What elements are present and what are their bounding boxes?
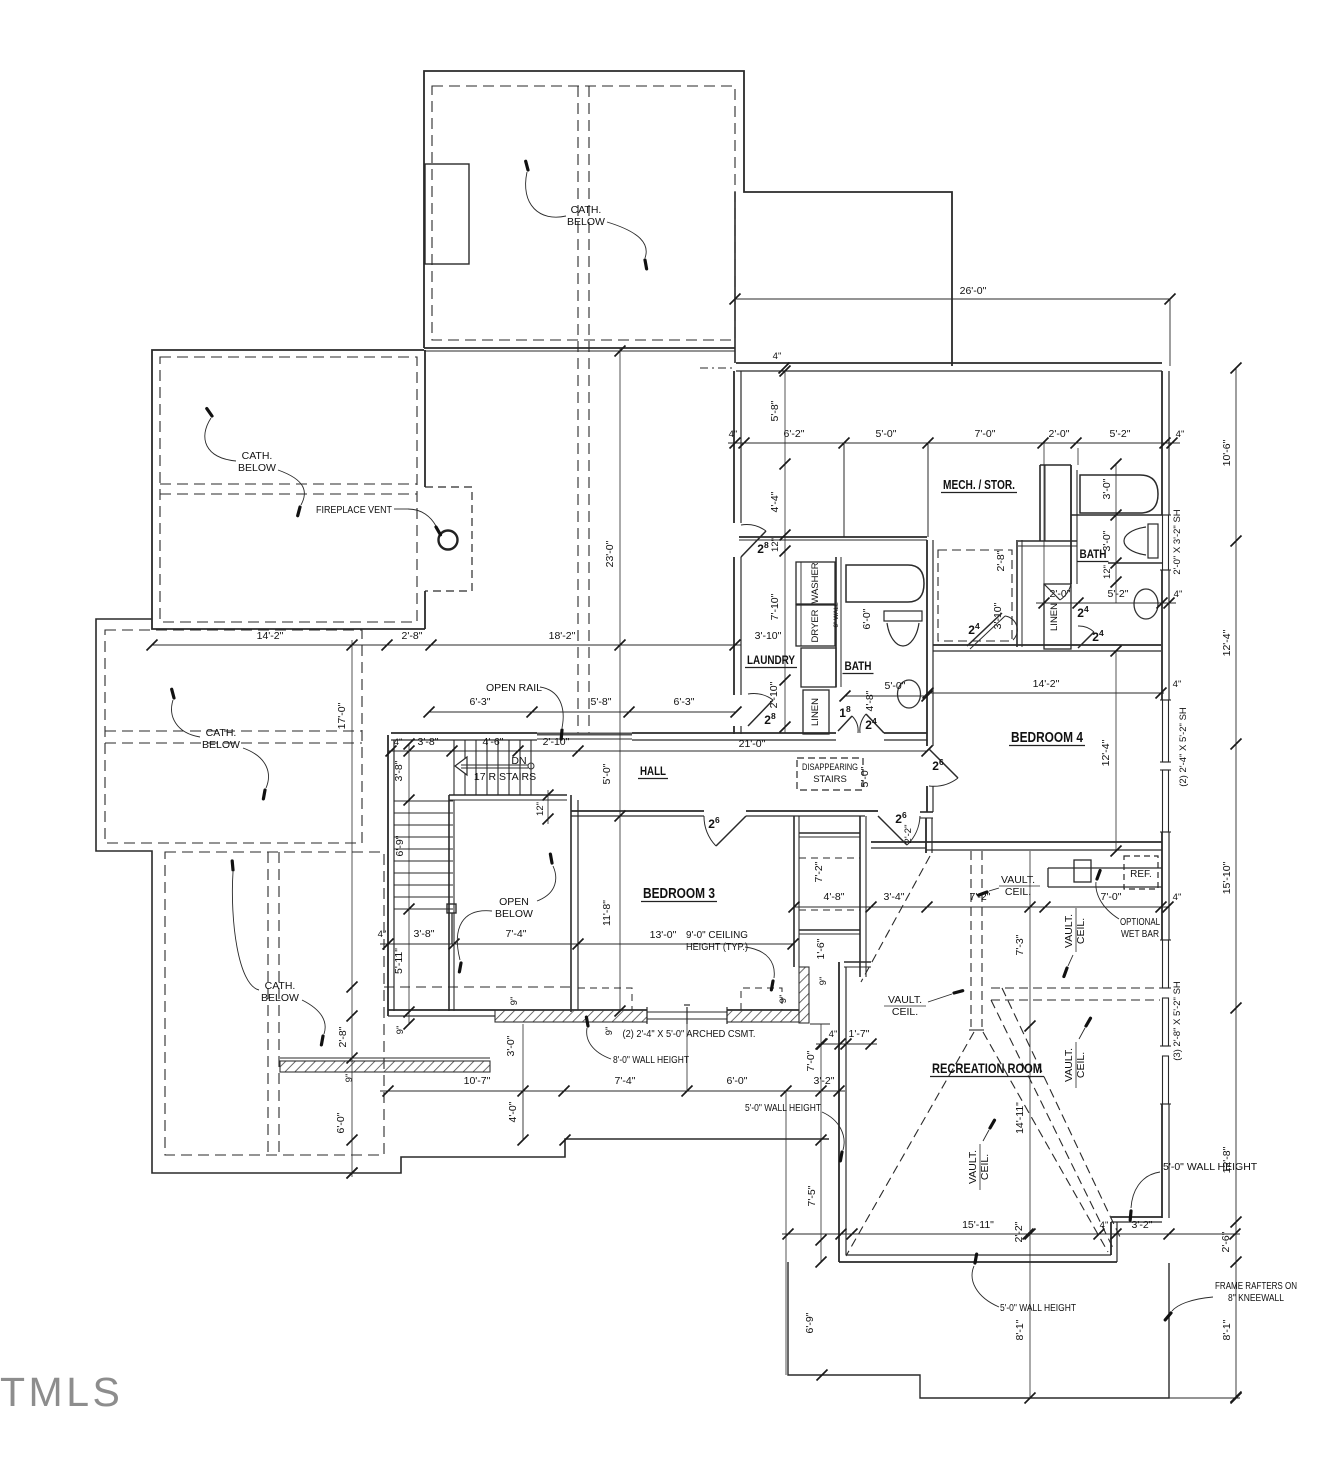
svg-text:2'-2": 2'-2" <box>1013 1221 1025 1242</box>
newel post <box>447 904 456 913</box>
wall: mech-stor south wall <box>739 536 927 538</box>
svg-text:6'-3": 6'-3" <box>470 696 491 708</box>
svg-text:9'-0" CEILING: 9'-0" CEILING <box>686 929 748 941</box>
svg-text:4'-4": 4'-4" <box>769 491 781 512</box>
svg-text:(2) 2'-4" X 5'-2" SH: (2) 2'-4" X 5'-2" SH <box>1178 707 1189 787</box>
svg-text:7'-10": 7'-10" <box>769 593 781 620</box>
dash: rec vault valley pair <box>991 1000 1113 1248</box>
svg-text:7'-4": 7'-4" <box>615 1075 636 1087</box>
svg-text:CEIL.: CEIL. <box>1005 886 1031 898</box>
svg-text:HEIGHT (TYP.): HEIGHT (TYP.) <box>686 941 748 953</box>
window: arched csmt pair bedroom3 <box>647 1011 727 1013</box>
svg-text:6'-9": 6'-9" <box>804 1312 816 1333</box>
svg-text:DN: DN <box>511 755 526 767</box>
dash: lower-left ceiling pair <box>105 730 362 732</box>
door 1-8 linen laundry <box>838 716 852 731</box>
svg-text:DISAPPEARING: DISAPPEARING <box>802 762 858 773</box>
dim line stairs top / 21-0 <box>388 750 927 752</box>
wall: left room right side <box>424 350 426 487</box>
dash: stair vault hip <box>861 856 930 982</box>
svg-text:5'-0": 5'-0" <box>885 680 906 692</box>
door 2-8 mech entry <box>741 531 766 557</box>
svg-text:OPEN RAIL: OPEN RAIL <box>486 682 542 694</box>
svg-text:2'-8": 2'-8" <box>337 1026 349 1047</box>
dash: rec vault ridge pair vertical <box>970 851 972 1027</box>
svg-text:4'-8": 4'-8" <box>824 891 845 903</box>
svg-text:5'-2": 5'-2" <box>1110 428 1131 440</box>
disappearing stairs box <box>797 758 863 790</box>
svg-text:CEIL.: CEIL. <box>979 1154 991 1180</box>
svg-text:9": 9" <box>509 997 520 1006</box>
sink center bath <box>898 680 921 708</box>
svg-text:3'-8": 3'-8" <box>414 928 435 940</box>
right margin dim column <box>1235 368 1237 1397</box>
svg-text:BATH: BATH <box>845 659 872 673</box>
svg-text:MECH. / STOR.: MECH. / STOR. <box>943 478 1015 492</box>
wall: main block left with door openings <box>733 371 735 523</box>
svg-text:8" KNEEWALL: 8" KNEEWALL <box>1228 1292 1284 1304</box>
dash: lower-left upper inner <box>105 630 362 843</box>
wall: right bath / sink area divider <box>1108 562 1162 564</box>
dim line bedroom3 width 3-8 7-4 13-0 <box>380 943 793 945</box>
svg-text:3'-2": 3'-2" <box>814 1075 835 1087</box>
door 2-6 bedroom4 entry <box>929 749 958 778</box>
wall: upper cath room bottom <box>424 347 735 349</box>
toilet center bath <box>884 611 922 621</box>
svg-text:14'-11": 14'-11" <box>1014 1102 1026 1134</box>
dash: lower-left lower inner <box>165 852 384 1155</box>
wall: laundry-bath 6in wall <box>835 557 837 687</box>
wall: rec room south <box>839 1261 1117 1263</box>
tick on kneewall boundary <box>560 1135 571 1146</box>
svg-text:OPTIONAL: OPTIONAL <box>1120 916 1160 928</box>
svg-text:6'-2": 6'-2" <box>784 428 805 440</box>
svg-text:TMLS: TMLS <box>0 1369 123 1415</box>
dash-dot stub left of main top wall <box>700 367 733 369</box>
hatch: lower-left kneewall band <box>280 1061 490 1072</box>
door vestibule 2-2 <box>878 816 907 845</box>
fireplace vent circle <box>439 531 458 550</box>
svg-text:4'-8": 4'-8" <box>864 690 876 711</box>
svg-text:14'-2": 14'-2" <box>1033 678 1060 690</box>
wall: upper cath room outline <box>424 71 952 366</box>
svg-text:BELOW: BELOW <box>238 462 276 474</box>
svg-text:9": 9" <box>778 995 789 1004</box>
svg-text:23'-0": 23'-0" <box>604 540 616 567</box>
svg-text:1'-7": 1'-7" <box>849 1028 870 1040</box>
dim line rec 4in 1-7 <box>816 1043 877 1045</box>
svg-text:8'-1": 8'-1" <box>1014 1319 1026 1340</box>
svg-text:LAUNDRY: LAUNDRY <box>747 653 795 667</box>
dim ext lines mech <box>1043 443 1045 598</box>
wall: open-below / bedroom3 divider <box>570 795 572 1012</box>
tub center bath <box>846 565 924 602</box>
linen cabinet laundry <box>803 690 829 734</box>
hatch: bedroom3 south wall right part <box>727 1010 799 1022</box>
svg-text:8'-1": 8'-1" <box>1221 1319 1233 1340</box>
wall: hall north continued <box>632 732 836 734</box>
laundry counter box <box>801 648 836 687</box>
hatch: east wall of bedroom3 wing <box>799 967 809 1023</box>
wet bar sink <box>1074 860 1091 882</box>
door 2-6 bedroom3 entry <box>716 816 746 846</box>
svg-text:5'-0" WALL HEIGHT: 5'-0" WALL HEIGHT <box>1000 1302 1076 1314</box>
svg-text:BELOW: BELOW <box>202 739 240 751</box>
svg-text:5'-8": 5'-8" <box>591 696 612 708</box>
dim column x523 <box>522 1024 524 1091</box>
svg-text:6'-0": 6'-0" <box>335 1112 347 1133</box>
svg-text:2'-0": 2'-0" <box>1049 428 1070 440</box>
svg-text:4": 4" <box>1173 892 1182 903</box>
svg-text:3'-0": 3'-0" <box>1101 478 1113 499</box>
dash: bedroom4 closet <box>938 550 1012 641</box>
wall: bedroom4 north <box>933 644 1161 646</box>
stairs DN arrow <box>455 757 467 775</box>
svg-text:3'-4": 3'-4" <box>884 891 905 903</box>
svg-text:4": 4" <box>773 351 782 362</box>
wall: bedroom4 closet east <box>1016 540 1018 647</box>
svg-text:WASHER: WASHER <box>810 562 821 603</box>
left interior dim column x785 <box>784 371 786 733</box>
svg-text:CATH.: CATH. <box>265 980 296 992</box>
svg-text:(2) 2'-4" X 5'-0" ARCHED CSMT.: (2) 2'-4" X 5'-0" ARCHED CSMT. <box>623 1028 756 1040</box>
svg-text:CATH.: CATH. <box>242 450 273 462</box>
wall: left cath room outline <box>152 350 425 629</box>
svg-text:13'-0": 13'-0" <box>650 929 677 941</box>
svg-text:7'-0": 7'-0" <box>975 428 996 440</box>
svg-text:4": 4" <box>829 1029 838 1040</box>
dryer box <box>796 605 835 646</box>
dim column x352 17-0 <box>351 640 353 1177</box>
svg-text:2'-0": 2'-0" <box>1050 588 1071 600</box>
svg-text:2'-8": 2'-8" <box>995 550 1007 571</box>
door linen right bath <box>1044 584 1060 600</box>
wall: bedroom3 closet column <box>793 816 795 967</box>
svg-text:4": 4" <box>394 737 403 748</box>
svg-text:FIREPLACE VENT: FIREPLACE VENT <box>316 504 392 516</box>
dim column right bath x1116 <box>1115 464 1117 603</box>
stairs lower run treads <box>394 800 453 802</box>
svg-text:12": 12" <box>535 802 546 816</box>
svg-text:FRAME RAFTERS ON: FRAME RAFTERS ON <box>1215 1280 1297 1292</box>
dim column x687 window <box>686 1024 688 1091</box>
svg-text:BELOW: BELOW <box>495 908 533 920</box>
dim column x620 23-0 <box>619 348 621 1012</box>
svg-text:4'-6": 4'-6" <box>483 736 504 748</box>
svg-text:BEDROOM 3: BEDROOM 3 <box>643 886 715 902</box>
window: rec room triple 2-8x5-2 SH <box>1163 940 1169 988</box>
svg-text:6'-0": 6'-0" <box>861 608 873 629</box>
svg-text:2'-2": 2'-2" <box>903 825 914 844</box>
svg-text:5'-0" WALL HEIGHT: 5'-0" WALL HEIGHT <box>1163 1161 1258 1173</box>
svg-text:CEIL.: CEIL. <box>1075 918 1087 944</box>
dash: rec horizontal ceiling pair <box>991 987 1160 989</box>
svg-text:STAIRS: STAIRS <box>813 774 847 785</box>
svg-text:OPEN: OPEN <box>499 896 529 908</box>
svg-text:BELOW: BELOW <box>567 216 605 228</box>
svg-text:9": 9" <box>344 1074 355 1083</box>
svg-text:10'-6": 10'-6" <box>1221 439 1233 466</box>
svg-text:12'-4": 12'-4" <box>1100 739 1112 766</box>
washer box <box>796 562 835 604</box>
svg-text:7'-3": 7'-3" <box>1014 934 1026 955</box>
svg-text:(3) 2'-8" X 5'-2" SH: (3) 2'-8" X 5'-2" SH <box>1172 981 1183 1061</box>
wall: linen closet right-bath <box>1044 584 1071 649</box>
svg-text:9": 9" <box>604 1027 615 1036</box>
svg-text:4'-0": 4'-0" <box>507 1101 519 1122</box>
svg-text:CATH.: CATH. <box>206 727 237 739</box>
svg-text:4": 4" <box>1174 589 1183 600</box>
svg-text:DRYER: DRYER <box>810 609 821 642</box>
svg-text:7'-0": 7'-0" <box>805 1050 817 1071</box>
dash: fireplace chase <box>425 487 472 591</box>
wall: bedroom wing south wall <box>388 1009 647 1011</box>
svg-text:6" WALL: 6" WALL <box>833 602 840 628</box>
dim line mech top row <box>728 442 1180 444</box>
svg-text:VAULT.: VAULT. <box>967 1150 979 1184</box>
refrigerator dashed box <box>1124 856 1158 889</box>
svg-text:6'-0": 6'-0" <box>727 1075 748 1087</box>
svg-text:2'-6": 2'-6" <box>1220 1231 1232 1252</box>
svg-text:REF.: REF. <box>1130 869 1152 880</box>
dim column x821 rec west <box>820 1024 822 1262</box>
svg-text:3'-2": 3'-2" <box>1132 1219 1153 1231</box>
dash: kneewall line through stairs area <box>384 986 570 988</box>
svg-text:10'-7": 10'-7" <box>464 1075 491 1087</box>
wall: bedroom4 south <box>926 841 1162 843</box>
svg-text:12": 12" <box>770 538 781 552</box>
svg-text:7'-5": 7'-5" <box>806 1185 818 1206</box>
toilet right bath <box>1148 524 1158 558</box>
svg-text:9": 9" <box>395 1026 406 1035</box>
svg-text:26'-0": 26'-0" <box>960 285 987 297</box>
svg-text:CATH.: CATH. <box>571 204 602 216</box>
wall: right bath west wall <box>1070 465 1072 584</box>
dim line 26-0 top <box>735 298 1170 300</box>
svg-text:2'-0" X 3'-2" SH: 2'-0" X 3'-2" SH <box>1172 509 1183 574</box>
svg-text:4": 4" <box>378 929 387 940</box>
wall: bath north nib and linen top <box>1039 465 1041 541</box>
svg-text:WET BAR: WET BAR <box>1121 928 1159 940</box>
hatch: bedroom3 south wall left part <box>495 1010 647 1022</box>
svg-text:4": 4" <box>729 429 738 440</box>
svg-text:BATH: BATH <box>1080 547 1107 561</box>
svg-text:5'-0" WALL HEIGHT: 5'-0" WALL HEIGHT <box>745 1102 821 1114</box>
wall: rec room west <box>838 962 840 1262</box>
wall: lower roof outline <box>788 1262 1169 1398</box>
svg-text:VAULT.: VAULT. <box>1063 914 1075 948</box>
dim line open rail 6-3 5-8 6-3 <box>429 711 736 713</box>
svg-text:12": 12" <box>1102 565 1113 579</box>
svg-text:14'-2": 14'-2" <box>257 630 284 642</box>
wall: mech partition lines <box>843 444 845 537</box>
svg-text:7'-2": 7'-2" <box>813 861 825 882</box>
landing 12in dim <box>547 790 549 824</box>
wall: main block top <box>736 362 1162 364</box>
svg-text:7'-0": 7'-0" <box>1101 891 1122 903</box>
wall: hall north (laundry south) with open rail <box>391 732 537 734</box>
svg-text:6'-9": 6'-9" <box>394 835 406 856</box>
dim line 14-2 / 2-8 / 18-2 / 3-10 <box>152 644 741 646</box>
svg-text:5'-8": 5'-8" <box>769 400 781 421</box>
dash: ridge pair upper rooms <box>577 86 579 733</box>
svg-text:7'-4": 7'-4" <box>506 928 527 940</box>
svg-text:21'-0": 21'-0" <box>739 738 766 750</box>
svg-text:RECREATION ROOM: RECREATION ROOM <box>932 1060 1042 1076</box>
svg-text:CEIL.: CEIL. <box>892 1006 918 1018</box>
svg-text:CEIL.: CEIL. <box>1075 1052 1087 1078</box>
svg-text:VAULT.: VAULT. <box>888 994 922 1006</box>
wet bar counter <box>1048 867 1162 869</box>
dash: lower-left vertical pair <box>267 852 269 1155</box>
wall: bedroom3/vestibule bottom south walls <box>871 841 926 843</box>
dim line right bath lower 2-0 5-2 <box>1036 602 1176 604</box>
svg-text:5'-0": 5'-0" <box>876 428 897 440</box>
svg-text:5'-2": 5'-2" <box>1108 588 1129 600</box>
svg-text:VAULT.: VAULT. <box>1063 1048 1075 1082</box>
dim line rec bottom 15-11 2-2 4 3-2 <box>782 1233 1240 1235</box>
dash: left room ceiling break pair <box>160 483 417 485</box>
door 2-4 center bath <box>866 714 884 733</box>
wall: bedroom4 west wall <box>926 540 928 746</box>
svg-text:4": 4" <box>1100 1220 1109 1231</box>
wall: chimney box upper room <box>425 164 469 264</box>
window: bedroom4 pair 2-4x5-2 SH <box>1163 700 1169 762</box>
wall: lower-left block outline <box>96 619 829 1173</box>
dim column x1030 rec <box>1029 851 1031 1398</box>
dash: upper room inner offset <box>432 86 735 340</box>
svg-text:3'-10": 3'-10" <box>755 630 782 642</box>
svg-text:4": 4" <box>1173 679 1182 690</box>
svg-text:3'-8": 3'-8" <box>393 760 405 781</box>
dim column bedroom4 12-4 <box>1115 650 1117 851</box>
svg-text:4": 4" <box>1176 429 1185 440</box>
svg-text:17 R STAIRS: 17 R STAIRS <box>474 771 536 783</box>
svg-text:1'-6": 1'-6" <box>815 938 827 959</box>
dash: rec vault left hip <box>846 1032 974 1256</box>
svg-text:2'-10": 2'-10" <box>543 736 570 748</box>
window: right bath 2-0x3-2 SH <box>1163 515 1169 570</box>
svg-text:15'-10": 15'-10" <box>1221 861 1233 894</box>
sink right bath <box>1134 589 1158 619</box>
dim column x409 stairs <box>408 744 410 1025</box>
wall: rec room SE notch <box>1110 1222 1112 1255</box>
dim line bedroom4 14-2 <box>928 692 1164 694</box>
wall: left outer bedroom wing <box>387 735 389 1016</box>
wall: upper cath room right inner <box>734 192 736 363</box>
dash: rec vault right hip <box>983 1032 1108 1252</box>
svg-text:5'-0": 5'-0" <box>601 763 613 784</box>
door 2-4 bedroom4 closet <box>967 613 1002 646</box>
wall: bedroom3 north with door opening <box>571 810 704 812</box>
svg-text:BELOW: BELOW <box>261 992 299 1004</box>
dim line closet row 4-8 3-4 7-2 7-0 <box>794 906 1168 908</box>
stairs upper run treads <box>453 740 455 795</box>
svg-text:BEDROOM 4: BEDROOM 4 <box>1011 730 1083 746</box>
svg-text:6'-3": 6'-3" <box>674 696 695 708</box>
svg-text:15'-11": 15'-11" <box>962 1219 994 1231</box>
svg-text:2'-8": 2'-8" <box>402 630 423 642</box>
svg-text:17'-0": 17'-0" <box>336 702 348 729</box>
svg-text:3'-8": 3'-8" <box>418 736 439 748</box>
wall: main right wall with window gaps <box>1161 371 1163 515</box>
svg-text:11'-8": 11'-8" <box>601 900 613 926</box>
svg-text:VAULT.: VAULT. <box>1001 874 1035 886</box>
svg-text:18'-2": 18'-2" <box>549 630 576 642</box>
dim 4-0 vertical stub <box>522 1091 524 1140</box>
dim line bottom 8-1 row <box>1025 1393 1036 1404</box>
dim line bath 5-0 <box>845 695 927 697</box>
wall: right bath tub divider <box>1071 514 1162 516</box>
svg-text:8'-0" WALL HEIGHT: 8'-0" WALL HEIGHT <box>613 1054 689 1066</box>
svg-text:5'-0": 5'-0" <box>859 766 871 787</box>
svg-text:HALL: HALL <box>640 764 666 778</box>
svg-text:5'-11": 5'-11" <box>393 948 405 974</box>
dim column x786 <box>785 1091 787 1375</box>
svg-text:LINEN: LINEN <box>1049 603 1060 631</box>
dash: bedroom3 kneewall corners <box>578 988 632 1010</box>
tub right bath <box>1080 475 1158 513</box>
svg-text:9": 9" <box>818 977 829 986</box>
stair landing walls <box>448 795 450 1011</box>
door 2-4 right bath <box>1078 632 1094 648</box>
svg-text:12'-4": 12'-4" <box>1221 629 1233 656</box>
door 2-8 laundry entry <box>748 700 773 726</box>
open rail segment <box>537 733 632 736</box>
svg-text:3'-0": 3'-0" <box>505 1035 517 1056</box>
dim line lower 10-7 7-4 6-0 3-2 <box>380 1090 845 1092</box>
svg-text:LINEN: LINEN <box>810 698 821 726</box>
dash: left room inner offset <box>160 357 417 622</box>
